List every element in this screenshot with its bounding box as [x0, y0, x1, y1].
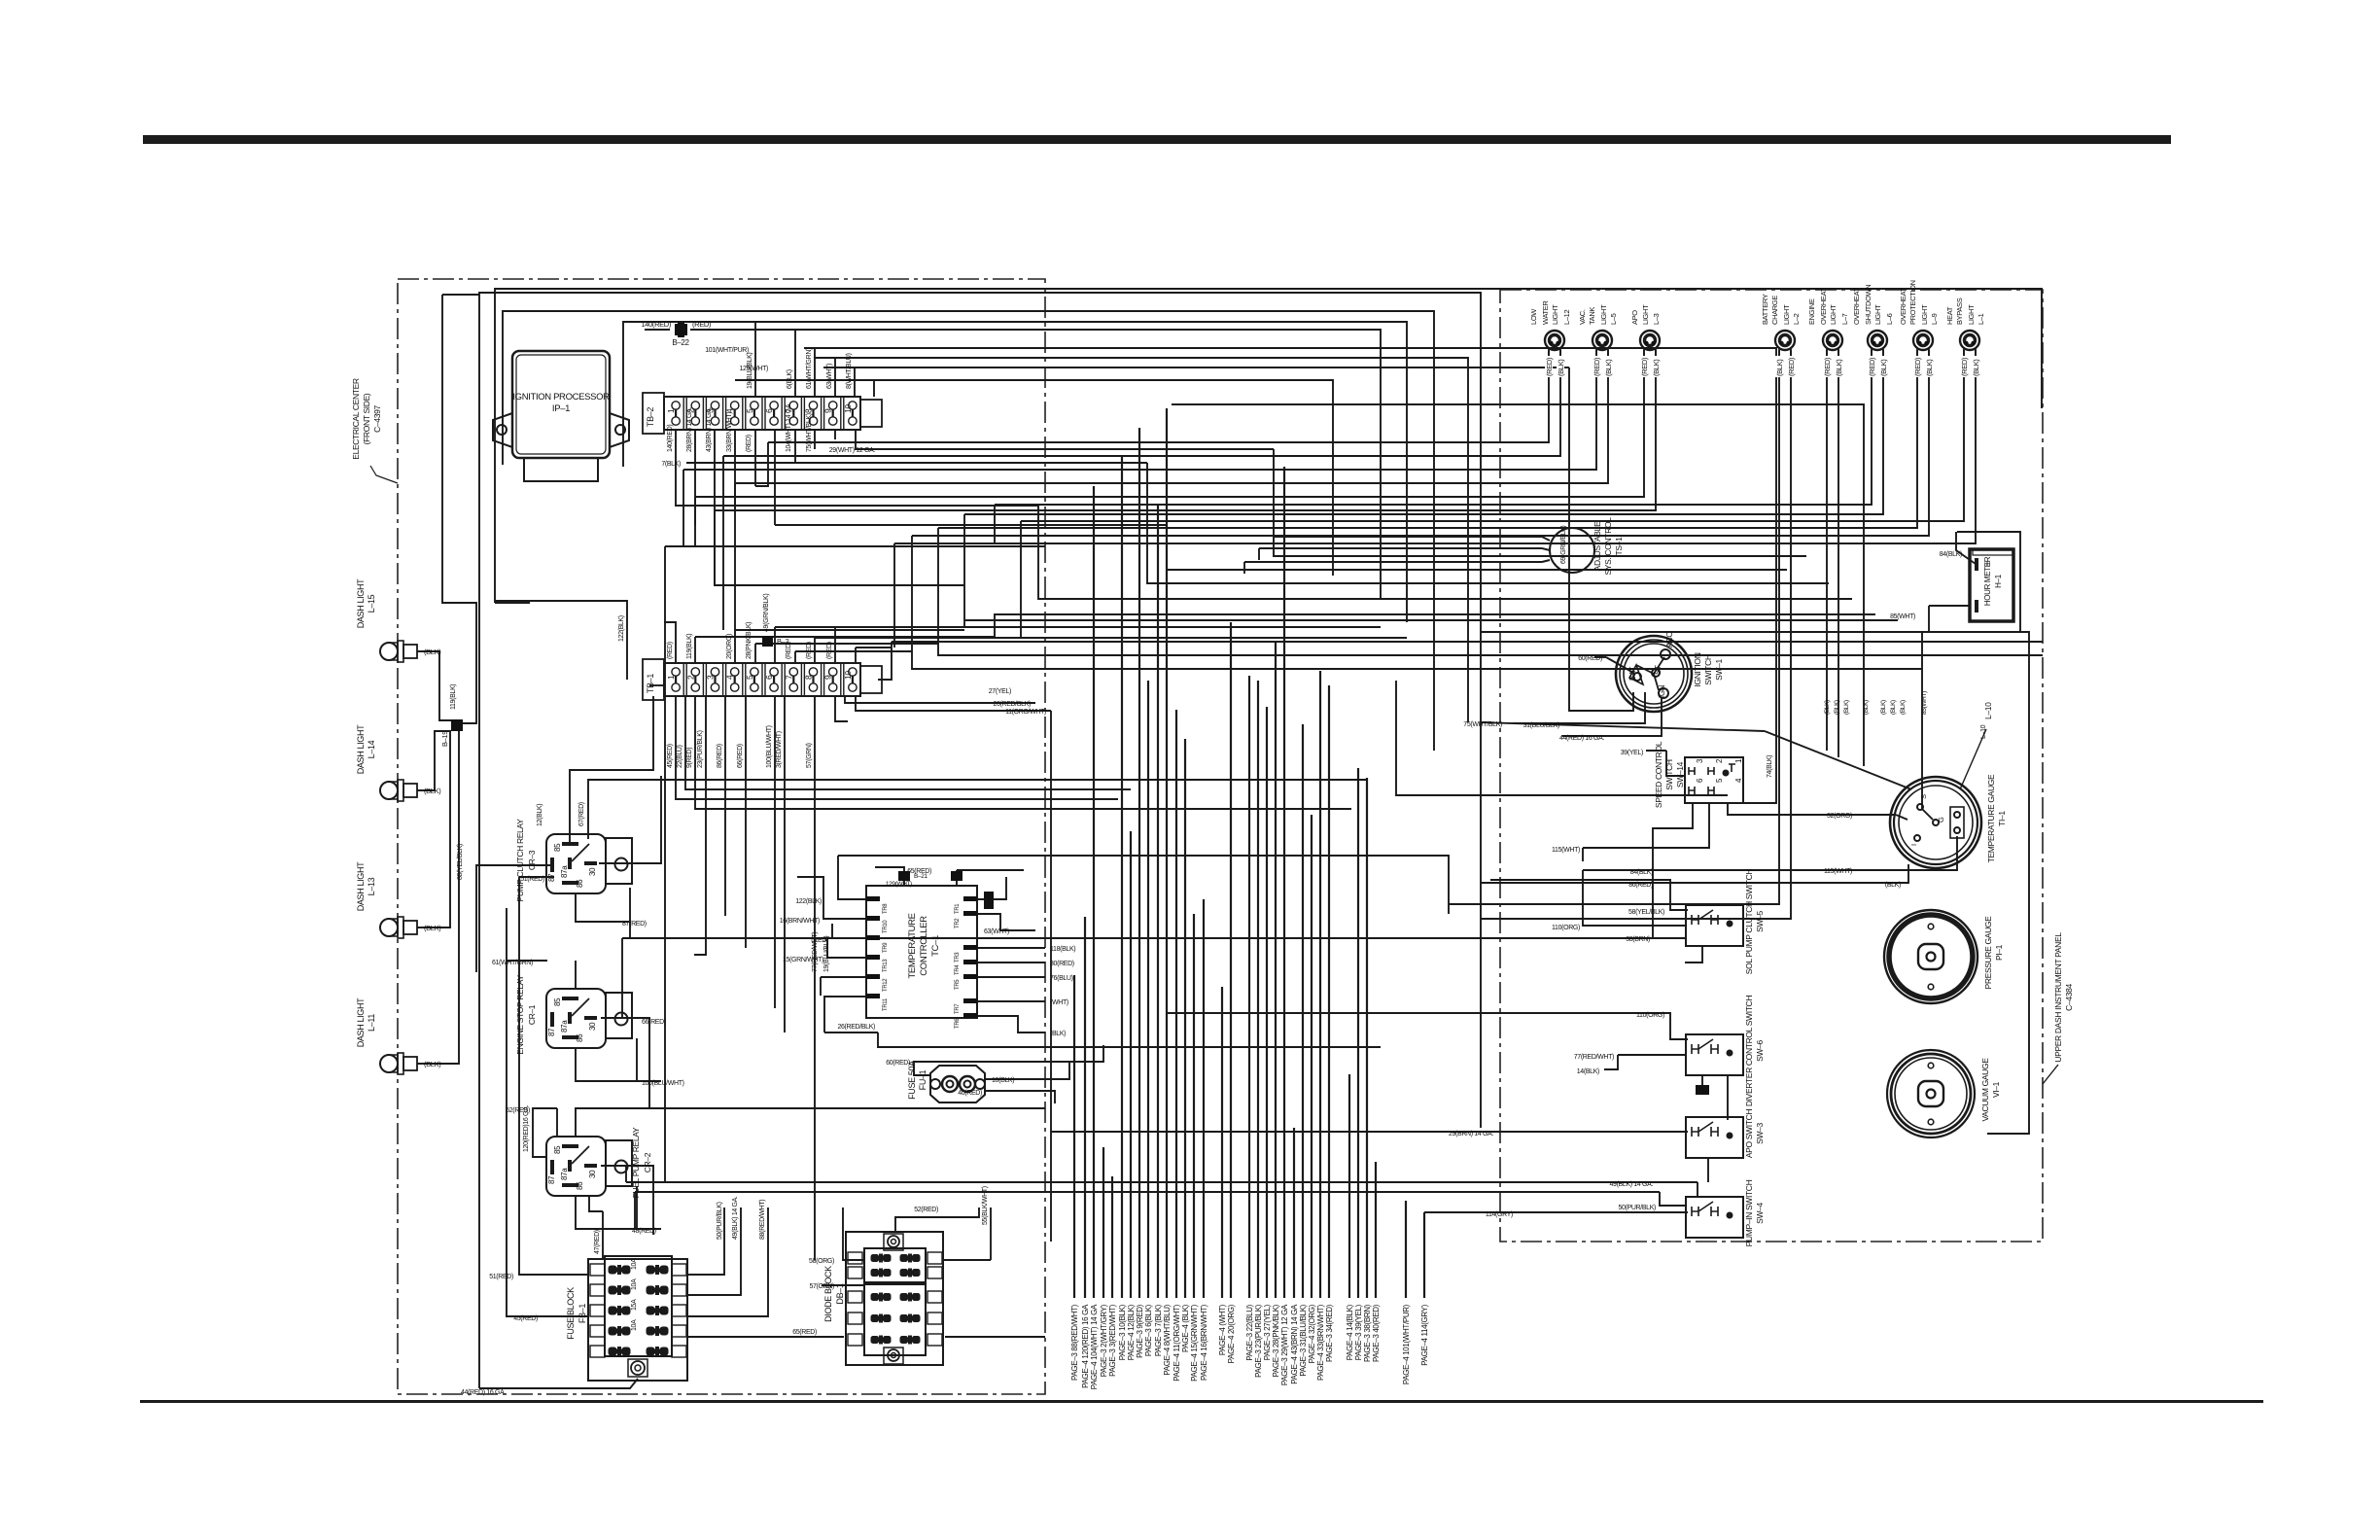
- svg-text:(RED): (RED): [806, 642, 813, 659]
- svg-text:PAGE–4 14(BLK): PAGE–4 14(BLK): [1346, 1304, 1354, 1360]
- svg-text:30(RED): 30(RED): [1050, 961, 1074, 967]
- svg-text:115(WHT): 115(WHT): [1552, 847, 1580, 854]
- svg-text:L–11: L–11: [367, 1014, 376, 1032]
- svg-text:DASH LIGHT: DASH LIGHT: [356, 861, 366, 911]
- svg-text:DASH LIGHT: DASH LIGHT: [356, 724, 366, 774]
- svg-text:10: 10: [843, 404, 853, 413]
- svg-text:9: 9: [823, 408, 833, 413]
- svg-text:TR5: TR5: [955, 979, 961, 990]
- svg-text:9: 9: [823, 675, 833, 680]
- svg-text:ST: ST: [1654, 665, 1662, 675]
- svg-text:(RED): (RED): [826, 642, 833, 659]
- svg-text:PAGE–4 104(WHT) 14 GA: PAGE–4 104(WHT) 14 GA: [1090, 1304, 1099, 1389]
- svg-text:44(RED) 16 GA.: 44(RED) 16 GA.: [461, 1389, 506, 1396]
- svg-text:PAGE–3 31(BLU/BLK): PAGE–3 31(BLU/BLK): [1299, 1304, 1308, 1376]
- svg-text:TI–1: TI–1: [1997, 811, 2007, 826]
- svg-text:(BLK): (BLK): [1879, 359, 1888, 376]
- svg-text:8: 8: [804, 408, 814, 413]
- svg-text:CR–3: CR–3: [527, 850, 537, 870]
- svg-text:PAGE–3 27(YEL): PAGE–3 27(YEL): [1263, 1304, 1272, 1360]
- svg-text:30: 30: [588, 1022, 597, 1031]
- svg-text:(BLK): (BLK): [1885, 882, 1901, 889]
- svg-text:6: 6: [764, 675, 774, 680]
- svg-text:L–12: L–12: [1562, 310, 1571, 325]
- svg-text:SW–6: SW–6: [1755, 1040, 1765, 1062]
- svg-text:1: 1: [666, 408, 676, 413]
- svg-text:PAGE–3 28(PNK/BLK): PAGE–3 28(PNK/BLK): [1272, 1304, 1280, 1377]
- svg-text:26(RED/BLK): 26(RED/BLK): [837, 1024, 875, 1031]
- svg-text:60(RED): 60(RED): [1578, 655, 1602, 662]
- svg-text:PAGE–4 33(BRN/WHT): PAGE–4 33(BRN/WHT): [1316, 1304, 1325, 1381]
- svg-text:87: 87: [547, 873, 556, 882]
- svg-text:85: 85: [553, 843, 562, 852]
- svg-text:49(GRN/BLK): 49(GRN/BLK): [763, 594, 770, 632]
- svg-text:B–22: B–22: [672, 338, 689, 347]
- svg-text:6: 6: [764, 408, 774, 413]
- svg-text:PAGE–4 114(GRY): PAGE–4 114(GRY): [1420, 1304, 1429, 1365]
- svg-text:2: 2: [1715, 758, 1724, 763]
- svg-text:PAGE–4 120(RED) 16 GA: PAGE–4 120(RED) 16 GA: [1081, 1304, 1090, 1388]
- svg-text:75(WHT/BLK): 75(WHT/BLK): [1463, 721, 1502, 728]
- svg-text:119(BLK): 119(BLK): [686, 634, 693, 659]
- svg-text:H–1: H–1: [1994, 574, 2003, 588]
- svg-text:HEAT: HEAT: [1945, 306, 1954, 325]
- svg-text:51(RED): 51(RED): [520, 876, 544, 883]
- svg-text:FUSE BLOCK: FUSE BLOCK: [566, 1287, 576, 1340]
- svg-text:PROTECTION: PROTECTION: [1908, 280, 1917, 325]
- svg-text:LIGHT: LIGHT: [1920, 304, 1929, 325]
- svg-text:86: 86: [576, 879, 584, 888]
- svg-text:48(RED): 48(RED): [632, 1228, 656, 1235]
- svg-text:PAGE–3 34(RED): PAGE–3 34(RED): [1325, 1304, 1334, 1362]
- svg-text:PAGE–3 7(BLK): PAGE–3 7(BLK): [1154, 1304, 1163, 1356]
- svg-text:(BLK): (BLK): [1835, 359, 1843, 376]
- svg-text:(RED): (RED): [667, 642, 674, 659]
- svg-text:PAGE–4 8(WHT/BLU): PAGE–4 8(WHT/BLU): [1163, 1304, 1172, 1375]
- svg-text:SW–14: SW–14: [1675, 761, 1685, 787]
- svg-text:6: 6: [1696, 778, 1704, 783]
- svg-text:52(RED): 52(RED): [914, 1207, 938, 1213]
- svg-text:SWITCH: SWITCH: [1703, 654, 1713, 685]
- svg-text:(RED): (RED): [1545, 357, 1554, 376]
- svg-text:(RED): (RED): [1913, 357, 1922, 376]
- svg-text:(RED): (RED): [1787, 357, 1796, 376]
- svg-text:120(RED)16 GA.: 120(RED)16 GA.: [523, 1105, 530, 1152]
- svg-text:84(BLK): 84(BLK): [1630, 869, 1653, 876]
- svg-text:86: 86: [576, 1033, 584, 1042]
- svg-text:PAGE–4 43(BRN) 14 GA: PAGE–4 43(BRN) 14 GA: [1290, 1304, 1299, 1384]
- svg-text:TR10: TR10: [883, 920, 889, 933]
- svg-text:L–14: L–14: [367, 740, 376, 758]
- svg-text:101(WHT/PUR): 101(WHT/PUR): [705, 347, 749, 354]
- svg-text:3: 3: [1696, 758, 1704, 763]
- svg-text:29(WHT) 12 GA.: 29(WHT) 12 GA.: [829, 447, 876, 454]
- svg-text:(BLK): (BLK): [1972, 359, 1980, 376]
- svg-text:OVERHEAT: OVERHEAT: [1852, 287, 1861, 325]
- svg-text:40(RED): 40(RED): [958, 1090, 982, 1097]
- svg-text:PUMP CLUTCH RELAY: PUMP CLUTCH RELAY: [515, 819, 525, 902]
- svg-text:57(GRN): 57(GRN): [809, 1283, 834, 1290]
- svg-text:129(WHT): 129(WHT): [740, 366, 768, 372]
- svg-text:22(BLU): 22(BLU): [677, 745, 683, 768]
- svg-text:TR2: TR2: [955, 918, 961, 928]
- svg-text:BATTERY: BATTERY: [1761, 294, 1769, 325]
- svg-text:TR1: TR1: [955, 903, 961, 914]
- svg-text:84(BLK): 84(BLK): [1940, 551, 1962, 558]
- svg-text:LIGHT: LIGHT: [1829, 304, 1837, 325]
- svg-text:(BLK): (BLK): [1834, 700, 1840, 715]
- svg-text:118(BLK): 118(BLK): [1050, 946, 1075, 953]
- svg-text:L–7: L–7: [1840, 313, 1849, 325]
- svg-text:G: G: [1937, 817, 1945, 822]
- svg-text:TB–1: TB–1: [646, 674, 655, 693]
- svg-text:61(WHT/GRN): 61(WHT/GRN): [806, 348, 813, 389]
- svg-text:VACUUM GAUGE: VACUUM GAUGE: [1980, 1058, 1990, 1122]
- svg-text:LIGHT: LIGHT: [1599, 304, 1608, 325]
- svg-text:11(ORG/WHT): 11(ORG/WHT): [1005, 709, 1046, 716]
- svg-text:51(RED): 51(RED): [489, 1274, 513, 1280]
- svg-text:LIGHT: LIGHT: [1551, 304, 1559, 325]
- svg-text:50(PUR/BLK): 50(PUR/BLK): [717, 1202, 723, 1240]
- svg-text:57(GRN): 57(GRN): [806, 743, 813, 768]
- svg-text:77(RED/WHT): 77(RED/WHT): [812, 932, 819, 972]
- svg-text:3(RED/WHT): 3(RED/WHT): [776, 731, 783, 768]
- svg-text:(RED): (RED): [1592, 357, 1601, 376]
- svg-text:58(YEL/BLK): 58(YEL/BLK): [1628, 909, 1664, 916]
- svg-text:49(BLK) 14 GA.: 49(BLK) 14 GA.: [1609, 1181, 1653, 1188]
- svg-text:(BLK): (BLK): [1843, 700, 1850, 715]
- svg-text:114(GRY): 114(GRY): [1486, 1211, 1513, 1218]
- svg-text:L–3: L–3: [1652, 313, 1661, 325]
- svg-text:(RED): (RED): [1823, 357, 1832, 376]
- svg-text:TR11: TR11: [883, 997, 889, 1011]
- svg-text:(BLK): (BLK): [1652, 359, 1661, 376]
- svg-text:LIGHT: LIGHT: [1641, 304, 1650, 325]
- svg-text:87: 87: [547, 1028, 556, 1036]
- svg-text:PAGE–4 (BLK): PAGE–4 (BLK): [1181, 1304, 1190, 1352]
- svg-text:65(RED): 65(RED): [907, 868, 931, 875]
- svg-text:87a: 87a: [560, 1020, 569, 1032]
- svg-text:(BLK): (BLK): [424, 647, 441, 656]
- svg-text:C–4384: C–4384: [2064, 984, 2074, 1011]
- svg-text:SW–3: SW–3: [1755, 1123, 1765, 1144]
- svg-text:IP–1: IP–1: [552, 403, 570, 414]
- svg-text:SHUTDOWN: SHUTDOWN: [1864, 285, 1872, 325]
- svg-text:PAGE–3 6(BLK): PAGE–3 6(BLK): [1144, 1304, 1153, 1356]
- svg-text:SW–4: SW–4: [1755, 1203, 1765, 1224]
- svg-text:PAGE–4 11(ORG/WHT): PAGE–4 11(ORG/WHT): [1172, 1304, 1181, 1381]
- svg-text:75(WHT/BLK): 75(WHT/BLK): [806, 413, 813, 452]
- svg-text:50(PUR/BLK): 50(PUR/BLK): [1618, 1205, 1656, 1211]
- svg-text:4: 4: [725, 675, 735, 680]
- svg-text:LIGHT: LIGHT: [1873, 304, 1882, 325]
- svg-text:UPPER DASH INSTRUMENT PANEL: UPPER DASH INSTRUMENT PANEL: [2053, 932, 2063, 1063]
- svg-text:PAGE–3 39(YEL): PAGE–3 39(YEL): [1354, 1304, 1363, 1360]
- svg-text:26(RED/BLK): 26(RED/BLK): [993, 701, 1031, 708]
- svg-text:IGNITION: IGNITION: [1693, 652, 1702, 686]
- svg-text:115(WHT): 115(WHT): [1824, 868, 1852, 875]
- svg-text:45(RED): 45(RED): [667, 744, 674, 768]
- svg-text:85(WHT): 85(WHT): [1921, 691, 1928, 715]
- svg-text:ADJUSTABLE: ADJUSTABLE: [1592, 521, 1602, 571]
- svg-text:IGN: IGN: [1658, 684, 1666, 698]
- svg-text:BYPASS: BYPASS: [1955, 297, 1964, 325]
- svg-text:TR9: TR9: [883, 942, 889, 953]
- svg-text:29(BRN) 14 GA.: 29(BRN) 14 GA.: [1449, 1131, 1493, 1137]
- svg-text:74(BLK): 74(BLK): [1767, 755, 1773, 778]
- svg-text:44(RED) 16 GA.: 44(RED) 16 GA.: [1559, 735, 1604, 742]
- svg-text:45(RED): 45(RED): [513, 1315, 538, 1322]
- svg-text:87: 87: [547, 1175, 556, 1184]
- svg-text:1: 1: [666, 675, 676, 680]
- svg-text:(RED): (RED): [1868, 357, 1876, 376]
- svg-text:(BLK): (BLK): [424, 1060, 441, 1068]
- svg-text:L–10: L–10: [1980, 724, 1987, 739]
- svg-text:DB–1: DB–1: [835, 1283, 845, 1304]
- svg-text:100(BLU/WHT): 100(BLU/WHT): [642, 1080, 684, 1087]
- svg-text:PAGE–4 20(ORG): PAGE–4 20(ORG): [1227, 1304, 1236, 1363]
- svg-text:66(RED): 66(RED): [642, 1019, 666, 1026]
- svg-text:TEMPERATURE GAUGE: TEMPERATURE GAUGE: [1986, 774, 1996, 862]
- svg-text:5: 5: [745, 408, 754, 413]
- svg-text:L–1: L–1: [1977, 313, 1985, 325]
- svg-text:19(BLU/BLK): 19(BLU/BLK): [823, 936, 830, 972]
- svg-text:TEMPERATURE: TEMPERATURE: [907, 913, 918, 978]
- svg-text:(BLK): (BLK): [1824, 700, 1831, 715]
- svg-text:VI–1: VI–1: [1991, 1081, 2001, 1098]
- svg-text:WATER: WATER: [1541, 300, 1550, 325]
- svg-text:FUEL PUMP RELAY: FUEL PUMP RELAY: [631, 1127, 641, 1198]
- svg-text:BAT: BAT: [1628, 667, 1637, 681]
- svg-text:PAGE–4 12(BLK): PAGE–4 12(BLK): [1127, 1304, 1136, 1360]
- svg-text:TS–1: TS–1: [1614, 537, 1624, 556]
- svg-text:122(BLK): 122(BLK): [618, 615, 625, 642]
- svg-text:30: 30: [588, 867, 597, 876]
- svg-text:(BLK): (BLK): [1925, 359, 1934, 376]
- svg-text:15A: 15A: [631, 1299, 638, 1311]
- svg-text:PUMP–IN SWITCH: PUMP–IN SWITCH: [1744, 1179, 1754, 1246]
- svg-text:119(BLK): 119(BLK): [450, 684, 457, 710]
- svg-text:TB–2: TB–2: [646, 407, 655, 427]
- svg-text:55(BLK/WHT): 55(BLK/WHT): [982, 1186, 989, 1225]
- svg-text:L–9: L–9: [1930, 313, 1939, 325]
- svg-text:TR12: TR12: [883, 978, 889, 992]
- svg-text:5: 5: [1715, 778, 1724, 783]
- svg-text:10: 10: [843, 671, 853, 680]
- svg-text:16(BRN/WHT): 16(BRN/WHT): [780, 918, 820, 925]
- svg-text:63(WHT): 63(WHT): [984, 928, 1009, 935]
- svg-text:LIGHT: LIGHT: [1967, 304, 1976, 325]
- svg-text:PAGE–4 (WHT): PAGE–4 (WHT): [1218, 1304, 1227, 1355]
- svg-text:LIGHT: LIGHT: [1782, 304, 1791, 325]
- svg-text:SW–5: SW–5: [1755, 911, 1765, 932]
- svg-text:(BLK): (BLK): [1604, 359, 1613, 376]
- svg-text:110(ORG): 110(ORG): [1552, 925, 1580, 931]
- svg-text:12(BLK): 12(BLK): [537, 804, 543, 826]
- svg-text:(RED): (RED): [1960, 357, 1969, 376]
- svg-text:L–5: L–5: [1609, 313, 1618, 325]
- svg-text:39(YEL): 39(YEL): [1621, 750, 1643, 756]
- svg-text:OVERHEAT: OVERHEAT: [1819, 287, 1828, 325]
- svg-text:CR–1: CR–1: [527, 1004, 537, 1025]
- svg-text:87a: 87a: [560, 865, 569, 878]
- svg-text:CONTROLLER: CONTROLLER: [919, 916, 929, 976]
- svg-text:67(RED): 67(RED): [578, 802, 585, 826]
- svg-text:33(BRN/WHT): 33(BRN/WHT): [726, 412, 733, 452]
- svg-text:PAGE–3 23(PUR/BLK): PAGE–3 23(PUR/BLK): [1254, 1304, 1263, 1378]
- svg-text:38(BRN): 38(BRN): [1626, 936, 1650, 943]
- svg-text:TR3: TR3: [955, 952, 961, 962]
- svg-text:8(WHT/BLU): 8(WHT/BLU): [846, 353, 853, 389]
- svg-text:LOW: LOW: [1529, 308, 1538, 325]
- svg-text:60(RED): 60(RED): [886, 1060, 910, 1067]
- svg-text:(RED): (RED): [1640, 357, 1649, 376]
- svg-text:31(BLU/BLK): 31(BLU/BLK): [1523, 722, 1559, 729]
- svg-text:23(PUR/BLK): 23(PUR/BLK): [697, 730, 704, 768]
- svg-text:63(WHT): 63(WHT): [826, 364, 833, 389]
- svg-text:ELECTRICAL CENTER: ELECTRICAL CENTER: [351, 378, 361, 460]
- svg-text:(WHT): (WHT): [1050, 999, 1068, 1006]
- svg-text:VAC.: VAC.: [1578, 309, 1587, 325]
- svg-text:61(WHT/GRN): 61(WHT/GRN): [492, 960, 533, 966]
- svg-text:DIVERTER CONTROL SWITCH: DIVERTER CONTROL SWITCH: [1744, 996, 1754, 1106]
- svg-text:(FRONT SIDE): (FRONT SIDE): [362, 393, 371, 444]
- svg-text:32(ORG): 32(ORG): [1827, 813, 1852, 820]
- svg-text:85(WHT): 85(WHT): [1890, 613, 1915, 620]
- svg-text:47(RED): 47(RED): [594, 1230, 601, 1254]
- svg-text:122(BLK): 122(BLK): [795, 898, 822, 905]
- svg-text:104(WHT) 14 GA.: 104(WHT) 14 GA.: [786, 402, 792, 452]
- svg-text:86(RED): 86(RED): [1628, 882, 1653, 889]
- svg-text:FU–1: FU–1: [918, 1069, 927, 1090]
- svg-text:5: 5: [745, 675, 754, 680]
- svg-text:L–10: L–10: [1983, 702, 1993, 719]
- svg-text:87(RED): 87(RED): [622, 921, 647, 927]
- svg-text:30: 30: [588, 1170, 597, 1178]
- svg-text:PAGE–3 2(WHT/GRY): PAGE–3 2(WHT/GRY): [1100, 1304, 1108, 1377]
- svg-text:PAGE–4 101(WHT/PUR): PAGE–4 101(WHT/PUR): [1402, 1304, 1411, 1384]
- svg-text:PAGE–4 15(GRN/WHT): PAGE–4 15(GRN/WHT): [1190, 1304, 1199, 1382]
- svg-text:L–13: L–13: [367, 877, 376, 895]
- svg-text:DIODE BLOCK: DIODE BLOCK: [823, 1266, 833, 1322]
- svg-text:APO: APO: [1630, 310, 1639, 325]
- svg-text:129(WHT): 129(WHT): [886, 881, 912, 888]
- svg-text:TANK: TANK: [1588, 307, 1596, 325]
- svg-text:HOUR METER: HOUR METER: [1983, 556, 1992, 606]
- svg-text:85: 85: [553, 997, 562, 1006]
- svg-text:TR6: TR6: [955, 1018, 961, 1029]
- svg-text:PAGE–3 10(BLK): PAGE–3 10(BLK): [1118, 1304, 1127, 1360]
- svg-text:DASH LIGHT: DASH LIGHT: [356, 578, 366, 628]
- svg-text:S: S: [1919, 794, 1928, 799]
- svg-text:L–6: L–6: [1885, 313, 1894, 325]
- svg-text:88(RED/WHT): 88(RED/WHT): [759, 1200, 766, 1240]
- svg-text:APO SWITCH: APO SWITCH: [1744, 1109, 1754, 1159]
- svg-text:(BLK): (BLK): [1863, 700, 1870, 715]
- svg-text:10A: 10A: [631, 1258, 638, 1270]
- svg-text:CHARGE: CHARGE: [1770, 296, 1779, 325]
- svg-text:TR8: TR8: [883, 903, 889, 914]
- svg-text:SPEED CONTROL: SPEED CONTROL: [1654, 741, 1663, 808]
- svg-text:L–2: L–2: [1792, 313, 1801, 325]
- svg-text:43(BRN) 14 GA.: 43(BRN) 14 GA.: [706, 407, 713, 452]
- svg-text:49(BLK) 14 GA.: 49(BLK) 14 GA.: [732, 1196, 739, 1240]
- svg-text:PAGE–3 88(RED/WHT): PAGE–3 88(RED/WHT): [1070, 1304, 1079, 1381]
- svg-text:27(YEL): 27(YEL): [989, 688, 1011, 695]
- svg-text:SYS. CONTROL: SYS. CONTROL: [1603, 517, 1613, 576]
- svg-text:14(BLK): 14(BLK): [1577, 1068, 1599, 1075]
- svg-text:(BLK): (BLK): [424, 924, 441, 932]
- svg-text:CR–2: CR–2: [643, 1152, 652, 1172]
- svg-text:(BLK): (BLK): [1890, 700, 1897, 715]
- svg-text:65(RED): 65(RED): [792, 1329, 817, 1336]
- svg-text:86: 86: [576, 1181, 584, 1190]
- svg-text:TR7: TR7: [955, 1003, 961, 1014]
- svg-text:140(RED): 140(RED): [667, 425, 674, 452]
- svg-text:PAGE–3 9(RED): PAGE–3 9(RED): [1136, 1304, 1144, 1358]
- svg-text:SWITCH: SWITCH: [1664, 759, 1674, 790]
- svg-text:(RED): (RED): [786, 642, 792, 659]
- svg-text:28(BRN) 14 GA.: 28(BRN) 14 GA.: [686, 407, 693, 452]
- svg-text:86(RED): 86(RED): [717, 744, 723, 768]
- svg-text:PI–1: PI–1: [1994, 944, 2004, 961]
- svg-text:(BLK): (BLK): [1775, 359, 1784, 376]
- svg-text:PAGE–4 32(ORG): PAGE–4 32(ORG): [1308, 1304, 1316, 1363]
- svg-text:PAGE–3 38(BRN): PAGE–3 38(BRN): [1363, 1304, 1372, 1362]
- svg-text:76(BLU): 76(BLU): [1050, 975, 1073, 982]
- svg-text:ENGINE: ENGINE: [1807, 298, 1816, 325]
- svg-text:PAGE–3 29(WHT) 12 GA: PAGE–3 29(WHT) 12 GA: [1280, 1304, 1289, 1385]
- svg-text:PAGE–3 22(BLU): PAGE–3 22(BLU): [1245, 1304, 1254, 1360]
- svg-text:L–15: L–15: [367, 594, 376, 612]
- svg-text:66(RED): 66(RED): [737, 744, 744, 768]
- svg-text:100(BLU/WHT): 100(BLU/WHT): [766, 725, 773, 768]
- svg-text:(BLK): (BLK): [1900, 700, 1907, 715]
- svg-text:FB–1: FB–1: [577, 1304, 587, 1323]
- svg-text:1: 1: [1734, 758, 1743, 763]
- svg-text:85: 85: [553, 1145, 562, 1154]
- svg-text:20(ORG): 20(ORG): [726, 634, 733, 659]
- svg-text:(RED): (RED): [746, 435, 752, 452]
- svg-text:(BLK): (BLK): [1880, 700, 1887, 715]
- svg-text:(BLK): (BLK): [1557, 359, 1565, 376]
- svg-text:3: 3: [706, 675, 716, 680]
- svg-text:8: 8: [804, 675, 814, 680]
- svg-text:(BLK): (BLK): [424, 787, 441, 795]
- svg-text:PAGE–4 16(BRN/WHT): PAGE–4 16(BRN/WHT): [1200, 1304, 1208, 1381]
- svg-text:88(YEL/BLK): 88(YEL/BLK): [457, 844, 464, 880]
- svg-text:ENGINE STOP RELAY: ENGINE STOP RELAY: [515, 975, 525, 1055]
- svg-text:58(ORG): 58(ORG): [809, 1258, 834, 1265]
- svg-text:B–19: B–19: [440, 731, 449, 747]
- svg-text:SW–1: SW–1: [1714, 659, 1724, 681]
- svg-text:9(RED): 9(RED): [686, 748, 693, 768]
- svg-text:TR4: TR4: [955, 964, 961, 975]
- svg-text:110(ORG): 110(ORG): [1636, 1012, 1664, 1019]
- svg-text:PAGE–3 40(RED): PAGE–3 40(RED): [1372, 1304, 1381, 1362]
- svg-text:DASH LIGHT: DASH LIGHT: [356, 997, 366, 1047]
- svg-text:7(BLK): 7(BLK): [661, 461, 681, 468]
- svg-text:10(BLK): 10(BLK): [992, 1077, 1014, 1084]
- svg-text:OVERHEAT: OVERHEAT: [1899, 287, 1907, 325]
- svg-text:7: 7: [784, 675, 793, 680]
- svg-text:10A: 10A: [631, 1278, 638, 1290]
- svg-text:ACC: ACC: [1665, 632, 1674, 647]
- svg-text:140(RED): 140(RED): [641, 320, 671, 329]
- svg-text:28(PNK/BLK): 28(PNK/BLK): [746, 622, 752, 659]
- svg-text:PAGE–3 3(RED/WHT): PAGE–3 3(RED/WHT): [1108, 1304, 1117, 1377]
- svg-text:(BLK): (BLK): [1050, 1031, 1066, 1037]
